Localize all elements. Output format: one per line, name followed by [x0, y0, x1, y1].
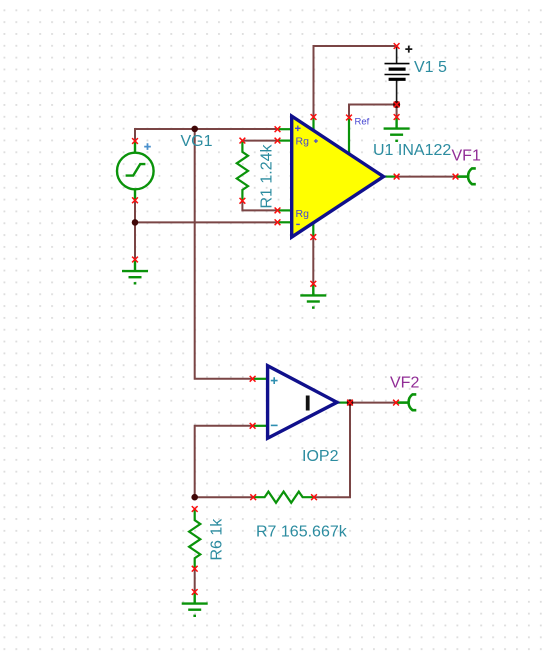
svg-text:R7 165.667k: R7 165.667k	[256, 524, 348, 541]
battery V1 plus sign	[405, 46, 412, 53]
voltage generator VG1	[117, 141, 154, 200]
svg-text:R1 1.24k: R1 1.24k	[259, 143, 276, 208]
svg-text:Rg: Rg	[296, 136, 310, 148]
svg-text:V1 5: V1 5	[414, 59, 447, 76]
wire VG1 bottom to INA122 - input	[135, 200, 278, 222]
op-amp U1 INA122 body	[292, 116, 384, 237]
wire INA122 output to VF1	[397, 176, 456, 178]
svg-text:R6 1k: R6 1k	[209, 518, 226, 561]
wire INA122 V- pin to ground	[312, 237, 314, 284]
battery V1 leads	[396, 46, 398, 105]
ground under battery	[384, 117, 410, 141]
wire VG1 bottom node to ground	[134, 222, 136, 259]
probe VF1	[456, 168, 476, 184]
resistor R1	[237, 141, 248, 201]
wire R6 bottom to ground	[194, 569, 196, 592]
U1 pin label - (bottom)	[296, 223, 300, 225]
op-amp U1 INA122 pins	[278, 117, 397, 237]
wire R7 right to output node	[314, 403, 350, 498]
resistor R7	[253, 492, 314, 503]
wire node B to R7 left	[195, 496, 254, 498]
junction node IOP2 output	[347, 399, 354, 406]
IOP2 pin label -	[271, 424, 278, 426]
svg-text:VF2: VF2	[390, 375, 419, 392]
probe VF2	[396, 394, 416, 410]
wire V+ pin to battery plus	[314, 46, 397, 117]
op-amp IOP2 body	[268, 366, 337, 439]
wire battery minus node to Ref pin	[349, 105, 397, 118]
svg-text:Ref: Ref	[355, 117, 370, 128]
wire IOP2 output node to VF2	[350, 402, 396, 404]
ground under VG1	[122, 260, 148, 284]
connection x marks	[132, 43, 458, 595]
U1 pin label + (top)	[295, 126, 301, 132]
junction node B	[191, 494, 198, 501]
op-amp IOP2 pins	[253, 379, 350, 426]
VG1 plus sign	[144, 143, 151, 150]
svg-text:U1 INA122: U1 INA122	[373, 142, 451, 159]
svg-text:VF1: VF1	[452, 148, 481, 165]
junction node battery minus	[393, 101, 400, 108]
wire R1 bottom to Rg bottom pin	[242, 201, 277, 211]
IOP2 ideal marker I	[306, 396, 310, 411]
junction node A	[191, 126, 198, 133]
svg-text:VG1: VG1	[181, 133, 213, 150]
battery V1 plates	[385, 64, 410, 80]
wire node A down to IOP2 + input	[195, 129, 253, 379]
ground under R6	[182, 592, 208, 616]
junction node VG1 bottom	[132, 219, 139, 226]
IOP2 pin label +	[271, 377, 278, 384]
U1 pin label + (Rg row)	[314, 139, 318, 143]
wire battery minus node to ground	[396, 105, 398, 118]
wire VG1 top to INA122 + input	[135, 129, 278, 141]
wire R1 top to Rg top pin	[242, 140, 277, 142]
svg-text:IOP2: IOP2	[302, 448, 339, 465]
wire IOP2 - input to node B	[195, 426, 253, 497]
ground under INA122 V-	[300, 284, 326, 308]
svg-text:Rg: Rg	[296, 208, 310, 220]
resistor R6	[189, 509, 200, 569]
